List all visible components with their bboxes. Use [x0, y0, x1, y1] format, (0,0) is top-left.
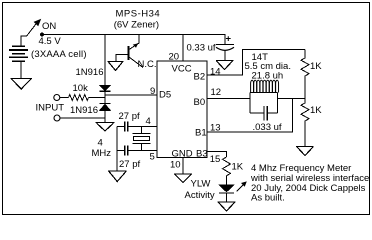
- svg-text:27 pf: 27 pf: [119, 111, 140, 122]
- ground under IC: [174, 174, 192, 183]
- svg-text:1N916: 1N916: [70, 105, 98, 116]
- svg-text:N.C.: N.C.: [138, 59, 157, 70]
- wire B3 pin15 to LED resistor: [207, 152, 227, 158]
- IC U1 box: [157, 61, 207, 158]
- svg-text:4.5 V: 4.5 V: [39, 36, 62, 47]
- svg-text:1K: 1K: [310, 105, 322, 116]
- wire B2 pin14 to tank top: [207, 50, 305, 76]
- node 4.5V junction dot: [40, 33, 44, 37]
- svg-text:5: 5: [150, 152, 155, 163]
- capacitor C2 27pf: [125, 146, 128, 156]
- LED emission arrow: [237, 184, 244, 191]
- svg-text:INPUT: INPUT: [36, 103, 65, 114]
- svg-text:1N916: 1N916: [76, 67, 104, 78]
- svg-text:As built.: As built.: [251, 193, 285, 204]
- tank left side: [249, 93, 251, 114]
- svg-text:B2: B2: [194, 72, 206, 83]
- resistor R2 1K: [301, 99, 309, 147]
- svg-text:10: 10: [170, 160, 181, 171]
- ground under battery: [11, 79, 33, 90]
- resistor R3 1K: [223, 157, 231, 185]
- svg-text:VCC: VCC: [172, 64, 192, 75]
- wire 10k to diode junction: [89, 97, 106, 99]
- svg-text:YLW: YLW: [191, 179, 211, 190]
- svg-text:0.33 uf: 0.33 uf: [187, 43, 216, 54]
- svg-text:4: 4: [98, 138, 103, 149]
- transistor Q1 body: [127, 46, 129, 60]
- transistor Q1 collector (N.C.): [128, 57, 143, 68]
- wire D2 to ground: [104, 111, 106, 123]
- tank right side: [277, 93, 279, 114]
- crystal Y1 4MHz: [133, 127, 151, 151]
- crystal section: pin 4 wire: [117, 126, 157, 128]
- switch S1 (ON): [21, 22, 37, 46]
- resistor R1 1K: [301, 50, 309, 99]
- svg-text:MPS-H34: MPS-H34: [116, 9, 161, 20]
- svg-text:+: +: [226, 34, 232, 45]
- svg-text:ON: ON: [42, 21, 56, 32]
- wire junction to D5 pin9: [105, 94, 157, 96]
- svg-text:(6V Zener): (6V Zener): [114, 19, 159, 30]
- svg-text:D5: D5: [159, 90, 171, 101]
- LED D3: [219, 185, 234, 193]
- svg-text:Activity: Activity: [185, 190, 215, 201]
- svg-text:1K: 1K: [232, 162, 244, 173]
- wire lower terminal to diode column: [60, 117, 105, 119]
- wire B0 pin12 to tank: [207, 98, 250, 100]
- ground under LED: [218, 202, 236, 211]
- pin 20 wire from rail: [182, 35, 184, 62]
- pin 5 wire: [117, 150, 157, 152]
- ground at Q1 base: [108, 62, 124, 71]
- wire B1 pin13 up to tank line: [207, 99, 293, 133]
- inductor L1 coil: [250, 80, 279, 92]
- input terminal upper: [54, 95, 60, 101]
- svg-text:(3XAAA cell): (3XAAA cell): [31, 49, 87, 60]
- ground under R2: [296, 147, 314, 156]
- wire LED to ground: [226, 193, 228, 202]
- svg-text:15: 15: [210, 154, 221, 165]
- wire terminal to 10k: [60, 97, 69, 99]
- capacitor C3 0.33uf +: [224, 35, 226, 45]
- ground under diode D2: [96, 123, 115, 132]
- svg-text:13: 13: [210, 123, 221, 134]
- svg-text:GND: GND: [172, 149, 193, 160]
- transistor Q1 base wire: [116, 55, 128, 62]
- svg-text:9: 9: [150, 86, 155, 97]
- input terminal lower: [54, 115, 60, 121]
- svg-text:20: 20: [169, 52, 180, 63]
- svg-text:12: 12: [211, 87, 222, 98]
- capacitor C1 27pf: [125, 122, 128, 132]
- svg-text:14: 14: [210, 67, 221, 78]
- svg-text:.033 uf: .033 uf: [253, 122, 282, 133]
- ground under C3: [216, 61, 234, 70]
- resistor R4 10k: [69, 95, 89, 101]
- svg-text:27 pf: 27 pf: [119, 159, 140, 170]
- diode D1 1N916: [100, 86, 111, 92]
- wire power rail: [42, 34, 226, 36]
- tank bottom wires: [250, 112, 278, 114]
- battery BT1 (3XAAA cell): [9, 46, 28, 61]
- svg-text:MHz: MHz: [92, 148, 112, 159]
- wire caps common to ground: [116, 127, 118, 172]
- wire D1 to junction: [104, 91, 106, 103]
- pin 10 wire to ground: [182, 158, 184, 175]
- svg-text:B0: B0: [194, 97, 206, 108]
- svg-text:10k: 10k: [73, 83, 89, 94]
- svg-text:B3: B3: [196, 149, 208, 160]
- svg-text:1K: 1K: [310, 61, 322, 72]
- diode D2 1N916: [100, 104, 111, 111]
- transistor Q1 emitter wire to rail: [128, 35, 139, 51]
- wire tank to resistor junction: [278, 98, 306, 100]
- capacitor C4 .033uf plates: [264, 106, 267, 121]
- svg-text:4: 4: [146, 116, 151, 127]
- svg-text:B1: B1: [195, 128, 207, 139]
- ground under caps: [108, 171, 127, 182]
- wire battery to ground: [20, 62, 22, 79]
- wire rail to diode D1: [104, 35, 106, 86]
